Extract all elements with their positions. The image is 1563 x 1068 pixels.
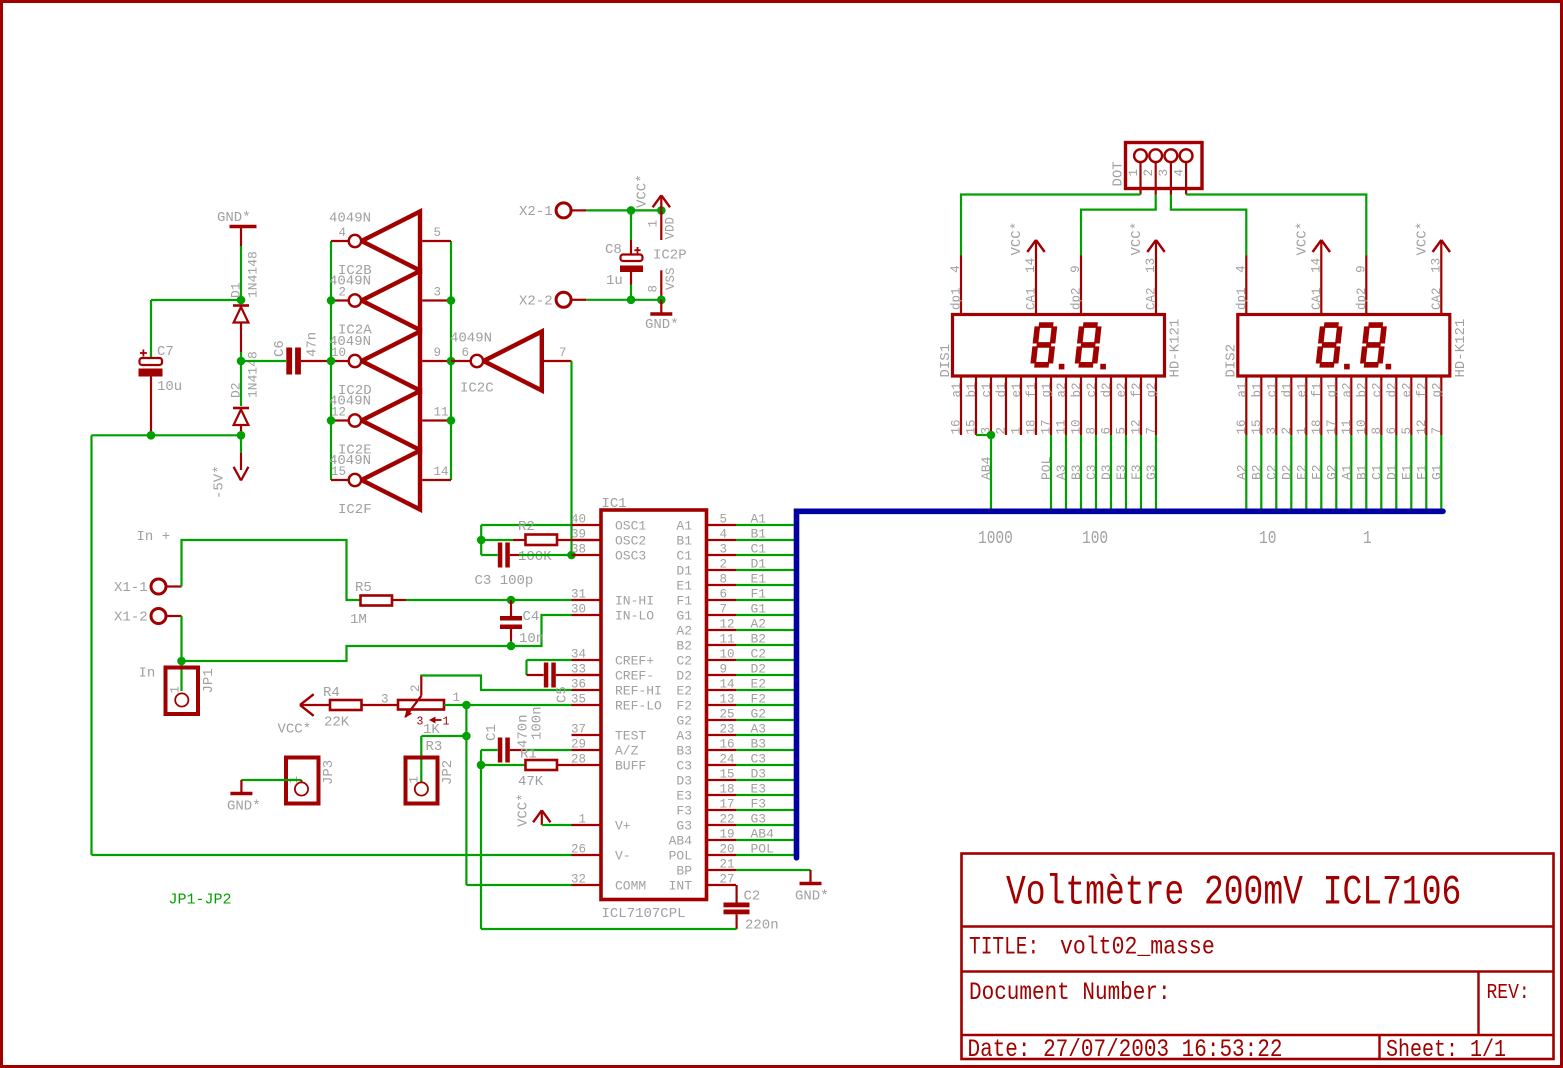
svg-text:In: In <box>139 666 156 682</box>
svg-text:13: 13 <box>1144 258 1158 273</box>
svg-text:A2: A2 <box>1234 464 1249 480</box>
net label E1 <box>751 572 767 587</box>
svg-text:E3: E3 <box>751 782 767 797</box>
svg-text:f2: f2 <box>1415 382 1429 397</box>
svg-text:5: 5 <box>1400 427 1414 435</box>
display DIS2 pin dp1 (4) <box>1234 256 1249 315</box>
svg-text:7: 7 <box>720 603 728 617</box>
svg-text:CA2: CA2 <box>1430 287 1444 310</box>
svg-text:13: 13 <box>1429 258 1443 273</box>
title block dividers <box>962 927 1554 1060</box>
svg-text:17: 17 <box>720 798 735 812</box>
net label F3 <box>1129 464 1144 480</box>
svg-text:c1: c1 <box>980 382 994 397</box>
svg-text:8: 8 <box>1370 427 1384 435</box>
display DIS1 pin g1 (17) <box>1040 376 1055 435</box>
wire <box>1140 435 1142 509</box>
inverter IC2E 4049N <box>329 391 451 459</box>
wire <box>736 629 794 631</box>
junction <box>507 642 516 651</box>
power symbol -5V* <box>212 435 249 499</box>
svg-text:C2: C2 <box>1264 464 1279 480</box>
svg-text:1: 1 <box>647 220 661 228</box>
display DIS2 pin dp2 (9) <box>1354 256 1369 315</box>
wire <box>736 794 794 796</box>
display DIS2 pin f2 (12) <box>1415 376 1430 435</box>
svg-text:3: 3 <box>1157 169 1171 177</box>
svg-text:1: 1 <box>443 716 450 729</box>
svg-text:TEST: TEST <box>615 729 646 744</box>
svg-text:6: 6 <box>720 588 728 602</box>
svg-text:VCC*: VCC* <box>516 793 532 827</box>
wire <box>92 854 572 856</box>
ic IC1 ICL7107CPL body <box>601 496 707 922</box>
display DIS1 pin c1 (3) <box>980 376 995 435</box>
svg-text:9: 9 <box>1354 265 1368 273</box>
svg-text:D3: D3 <box>751 767 767 782</box>
svg-text:V+: V+ <box>615 819 631 834</box>
connector X1-1 <box>114 579 182 596</box>
svg-text:e2: e2 <box>1400 382 1414 397</box>
ic IC1 pin row POL <box>571 843 736 864</box>
svg-text:6: 6 <box>1385 427 1399 435</box>
diode D1 1N4148 <box>229 251 261 352</box>
display DIS2 pin e2 (5) <box>1400 376 1415 435</box>
display DIS1 pin dp2 (9) <box>1069 256 1084 315</box>
svg-text:IC2C: IC2C <box>460 381 494 397</box>
wire <box>736 824 794 826</box>
svg-text:VCC*: VCC* <box>1414 222 1430 256</box>
svg-text:G3: G3 <box>676 819 692 834</box>
svg-text:C1: C1 <box>484 724 500 741</box>
svg-text:3: 3 <box>434 286 442 300</box>
net label A1 <box>1339 464 1354 480</box>
svg-text:4: 4 <box>1172 169 1186 177</box>
svg-text:REV:: REV: <box>1487 980 1530 1005</box>
junction <box>327 296 336 305</box>
net label D2 <box>1279 464 1294 480</box>
net label E2 <box>751 677 767 692</box>
svg-text:C2: C2 <box>676 654 692 669</box>
svg-text:B3: B3 <box>1069 464 1084 480</box>
svg-text:GND*: GND* <box>795 889 829 905</box>
svg-text:F3: F3 <box>751 797 767 812</box>
wire <box>1335 435 1337 509</box>
svg-text:AB4: AB4 <box>669 834 693 849</box>
svg-text:11: 11 <box>434 406 449 420</box>
net label E2 <box>1294 464 1309 480</box>
svg-text:C1: C1 <box>676 549 692 564</box>
junction <box>177 657 186 666</box>
svg-text:OSC1: OSC1 <box>615 519 646 534</box>
wire <box>465 736 467 885</box>
power symbol VCC* (DIS2 CA1) <box>1294 222 1330 315</box>
net label F3 <box>751 797 767 812</box>
svg-text:8: 8 <box>720 573 728 587</box>
svg-text:A1: A1 <box>1339 464 1354 480</box>
svg-text:23: 23 <box>720 723 735 737</box>
inverter IC2C 4049N <box>450 331 572 397</box>
svg-text:1: 1 <box>1363 528 1372 549</box>
wire <box>736 659 794 661</box>
svg-text:9: 9 <box>1069 265 1083 273</box>
net label G2 <box>1324 464 1339 480</box>
wire <box>736 539 794 541</box>
net label F2 <box>751 692 767 707</box>
junction <box>567 551 576 560</box>
wire (IC2 outputs rail) <box>450 241 452 480</box>
wire <box>240 361 242 406</box>
display DIS2 pin d2 (6) <box>1385 376 1400 435</box>
wire (b1 to AB4) <box>976 434 991 436</box>
svg-text:ICL7107CPL: ICL7107CPL <box>602 906 686 922</box>
wire <box>466 884 571 886</box>
svg-text:6: 6 <box>1100 427 1114 435</box>
wire <box>444 704 466 706</box>
svg-text:F2: F2 <box>751 692 767 707</box>
svg-text:14: 14 <box>720 678 735 692</box>
svg-text:A1: A1 <box>676 519 692 534</box>
svg-text:47K: 47K <box>518 774 544 790</box>
svg-text:10: 10 <box>1070 419 1084 434</box>
net label G1 <box>751 602 767 617</box>
capacitor C5 100n <box>527 660 602 740</box>
svg-text:10: 10 <box>720 648 735 662</box>
svg-text:1: 1 <box>1010 427 1024 435</box>
diode D2 1N4148 <box>229 351 261 431</box>
svg-text:2: 2 <box>409 684 423 692</box>
display DIS2 pin c2 (8) <box>1370 376 1385 435</box>
svg-text:4049N: 4049N <box>329 211 371 227</box>
svg-text:POL: POL <box>751 842 774 857</box>
wire <box>1050 435 1052 509</box>
display DIS1 pin d2 (6) <box>1100 376 1115 435</box>
power symbol VCC* (DIS1 CA2) <box>1129 222 1165 315</box>
svg-text:C3: C3 <box>676 759 692 774</box>
svg-text:IC2F: IC2F <box>338 502 372 518</box>
svg-text:D1: D1 <box>1384 464 1399 480</box>
svg-text:c2: c2 <box>1370 382 1384 397</box>
display DIS1 pin c2 (8) <box>1085 376 1100 435</box>
svg-text:A3: A3 <box>751 722 767 737</box>
svg-text:C3 100p: C3 100p <box>475 573 534 589</box>
svg-text:B2: B2 <box>676 639 692 654</box>
svg-text:OSC3: OSC3 <box>615 549 646 564</box>
svg-text:JP1: JP1 <box>201 668 217 693</box>
svg-text:100n: 100n <box>530 706 546 740</box>
svg-text:A2: A2 <box>676 624 692 639</box>
svg-text:F1: F1 <box>751 587 767 602</box>
title field REV: <box>1487 980 1530 1005</box>
power symbol VCC* (DIS1 CA1) <box>1009 222 1045 315</box>
svg-text:5: 5 <box>1115 427 1129 435</box>
svg-text:R4: R4 <box>323 685 340 701</box>
junction <box>327 357 336 366</box>
svg-text:G1: G1 <box>1429 464 1444 480</box>
net label C1 <box>1369 464 1384 480</box>
svg-text:100: 100 <box>1082 528 1108 549</box>
svg-text:BP: BP <box>676 864 692 879</box>
svg-text:5: 5 <box>720 513 728 527</box>
svg-text:E2: E2 <box>676 684 692 699</box>
svg-text:4: 4 <box>338 226 346 240</box>
svg-text:6: 6 <box>462 346 470 360</box>
svg-text:JP2: JP2 <box>440 760 456 785</box>
ic IC1 pin row A1 <box>571 513 736 534</box>
ic IC1 pin row G3 <box>572 813 737 834</box>
svg-text:C2: C2 <box>751 647 767 662</box>
ic IC1 pin row C1 <box>571 543 736 564</box>
svg-text:dp1: dp1 <box>1235 287 1249 310</box>
junction <box>987 431 996 440</box>
jumper JP3 <box>286 758 337 804</box>
wire <box>736 764 794 766</box>
label In + <box>137 529 171 545</box>
svg-text:36: 36 <box>571 678 586 692</box>
wire <box>736 644 794 646</box>
svg-text:HD-K121: HD-K121 <box>1168 319 1184 378</box>
svg-text:INT: INT <box>669 879 693 894</box>
net label A2 <box>1234 464 1249 480</box>
svg-text:37: 37 <box>571 723 586 737</box>
net label B3 <box>751 737 767 752</box>
svg-text:8: 8 <box>647 285 661 293</box>
svg-text:35: 35 <box>571 693 586 707</box>
svg-text:DIS1: DIS1 <box>938 344 954 378</box>
wire <box>519 554 572 556</box>
svg-text:39: 39 <box>571 528 586 542</box>
svg-text:5: 5 <box>434 226 442 240</box>
resistor R2 100K <box>481 519 601 565</box>
wire <box>481 928 737 930</box>
net label D1 <box>1384 464 1399 480</box>
wire <box>570 361 572 555</box>
svg-text:1N4148: 1N4148 <box>246 251 261 298</box>
wire <box>1155 435 1157 509</box>
svg-text:14: 14 <box>1309 258 1323 273</box>
svg-text:A3: A3 <box>676 729 692 744</box>
junction <box>627 296 636 305</box>
display DIS2 pin g2 (7) <box>1430 376 1445 435</box>
net label C2 <box>1264 464 1279 480</box>
svg-text:2: 2 <box>995 427 1009 435</box>
wire <box>1095 435 1097 509</box>
svg-text:G3: G3 <box>751 812 767 827</box>
ic IC1 pin row D2 <box>571 663 736 684</box>
svg-text:V-: V- <box>615 849 631 864</box>
label In <box>139 666 156 682</box>
svg-text:f1: f1 <box>1310 382 1324 397</box>
svg-text:Document Number:: Document Number: <box>969 978 1171 1006</box>
svg-text:30: 30 <box>571 603 586 617</box>
connector X2-2 <box>519 292 586 309</box>
svg-text:20: 20 <box>720 843 735 857</box>
wire <box>736 749 794 751</box>
svg-text:c2: c2 <box>1085 382 1099 397</box>
net label E1 <box>1399 464 1414 480</box>
wire <box>736 674 794 676</box>
display DIS1 pin f1 (18) <box>1025 376 1040 435</box>
svg-text:12: 12 <box>1415 419 1429 434</box>
svg-text:Voltmètre 200mV ICL7106: Voltmètre 200mV ICL7106 <box>1006 870 1461 917</box>
svg-text:E1: E1 <box>751 572 767 587</box>
net label C1 <box>751 542 767 557</box>
svg-text:g1: g1 <box>1040 382 1054 397</box>
svg-text:VCC*: VCC* <box>278 722 312 738</box>
wire <box>182 540 361 600</box>
svg-text:POL: POL <box>669 849 692 864</box>
svg-text:B2: B2 <box>1249 464 1264 480</box>
jumper JP1 <box>166 661 218 714</box>
svg-text:12: 12 <box>720 618 735 632</box>
wire <box>240 246 242 300</box>
junction <box>477 536 486 545</box>
net label D3 <box>751 767 767 782</box>
svg-text:F2: F2 <box>676 699 692 714</box>
svg-text:9: 9 <box>720 663 728 677</box>
svg-text:GND*: GND* <box>645 317 679 333</box>
wire <box>406 599 572 601</box>
capacitor C1 470n <box>481 714 532 762</box>
svg-text:IN-LO: IN-LO <box>615 609 654 624</box>
svg-text:Sheet: 1/1: Sheet: 1/1 <box>1386 1036 1506 1063</box>
svg-text:17: 17 <box>1325 419 1339 434</box>
display DIS2 pin a2 (11) <box>1340 376 1355 435</box>
svg-text:C1: C1 <box>751 542 767 557</box>
net label POL <box>1039 457 1054 480</box>
wire <box>736 689 794 691</box>
svg-text:11: 11 <box>1055 419 1069 434</box>
svg-text:B1: B1 <box>751 527 767 542</box>
junction <box>477 761 486 770</box>
display DIS1 pin e2 (5) <box>1115 376 1130 435</box>
junction <box>507 596 516 605</box>
net label AB4 <box>751 827 775 842</box>
svg-text:G2: G2 <box>751 707 767 722</box>
wire <box>421 676 571 691</box>
svg-text:D3: D3 <box>1099 464 1114 480</box>
net label B2 <box>751 632 767 647</box>
svg-text:29: 29 <box>571 738 586 752</box>
wire <box>525 749 572 751</box>
svg-text:4: 4 <box>720 528 728 542</box>
svg-text:15: 15 <box>1250 419 1264 434</box>
net label G3 <box>751 812 767 827</box>
svg-text:D3: D3 <box>676 774 692 789</box>
svg-text:4: 4 <box>1234 265 1248 273</box>
junction <box>657 296 666 305</box>
svg-text:C7: C7 <box>157 344 174 360</box>
display DIS1 pin a1 (16) <box>950 376 965 435</box>
svg-text:VCC*: VCC* <box>1009 222 1025 256</box>
capacitor C2 220n <box>724 885 779 934</box>
power symbol GND* (top) <box>217 210 257 246</box>
wire <box>1380 435 1382 509</box>
display DIS1 pin a2 (11) <box>1055 376 1070 435</box>
junction <box>237 357 246 366</box>
wire <box>1320 435 1322 509</box>
svg-text:REF-LO: REF-LO <box>615 699 662 714</box>
svg-text:G1: G1 <box>751 602 767 617</box>
wire <box>736 569 794 571</box>
ic IC1 pin row G2 <box>676 708 736 729</box>
display DIS2 pin b2 (10) <box>1355 376 1370 435</box>
display DIS2 pin b1 (15) <box>1250 376 1265 435</box>
display DIS1 HD-K121 body <box>938 315 1184 378</box>
svg-text:31: 31 <box>571 588 586 602</box>
svg-text:C3: C3 <box>1084 464 1099 480</box>
ic IC1 pin row D3 <box>676 768 736 789</box>
svg-text:TITLE:: TITLE: <box>969 932 1039 961</box>
net label B1 <box>751 527 767 542</box>
net label B2 <box>1249 464 1264 480</box>
junction <box>237 431 246 440</box>
display DIS1 pin g2 (7) <box>1145 376 1160 435</box>
svg-text:e2: e2 <box>1115 382 1129 397</box>
connector DOT <box>1111 143 1203 195</box>
net label C2 <box>751 647 767 662</box>
ic IC1 pin row B1 <box>571 528 736 549</box>
wire <box>1350 435 1352 509</box>
svg-text:C2: C2 <box>744 889 761 905</box>
svg-text:F2: F2 <box>1309 464 1324 480</box>
svg-text:f1: f1 <box>1025 382 1039 397</box>
svg-text:E3: E3 <box>676 789 692 804</box>
svg-text:15: 15 <box>331 465 346 479</box>
svg-text:e1: e1 <box>1010 382 1024 397</box>
junction <box>462 701 471 710</box>
svg-text:D1: D1 <box>676 564 692 579</box>
svg-text:3: 3 <box>1265 427 1279 435</box>
svg-text:4: 4 <box>949 265 963 273</box>
svg-text:X2-2: X2-2 <box>519 294 553 310</box>
svg-text:10: 10 <box>1259 528 1276 549</box>
svg-text:CA1: CA1 <box>1025 287 1039 310</box>
svg-text:11: 11 <box>1340 419 1354 434</box>
svg-text:27: 27 <box>720 873 735 887</box>
svg-text:3: 3 <box>720 543 728 557</box>
power symbol VCC* (DIS2 CA2) <box>1414 222 1450 315</box>
svg-text:C4: C4 <box>523 609 540 625</box>
svg-text:DOT: DOT <box>1111 161 1127 186</box>
svg-text:d2: d2 <box>1385 382 1399 397</box>
display DIS1 pin e1 (1) <box>1010 376 1025 435</box>
svg-text:a2: a2 <box>1055 382 1069 397</box>
bus label 1 <box>1363 528 1372 549</box>
ic IC1 pin row D1 <box>676 558 736 579</box>
svg-text:13: 13 <box>720 693 735 707</box>
svg-text:14: 14 <box>434 465 449 479</box>
svg-text:COMM: COMM <box>615 879 646 894</box>
wire <box>1065 435 1067 509</box>
wire (BP to GND) <box>736 869 811 871</box>
display DIS1 pin dp1 (4) <box>949 256 964 315</box>
junction <box>462 732 471 741</box>
svg-text:b1: b1 <box>965 382 979 397</box>
bus label 10 <box>1259 528 1276 549</box>
junction <box>147 431 156 440</box>
wire <box>736 599 794 601</box>
svg-text:28: 28 <box>571 753 586 767</box>
svg-text:F3: F3 <box>676 804 692 819</box>
svg-text:A/Z: A/Z <box>615 744 639 759</box>
svg-text:47n: 47n <box>305 332 321 357</box>
junction <box>657 206 666 215</box>
trimmer R3 1K <box>381 676 460 755</box>
svg-text:X1-1: X1-1 <box>114 580 148 596</box>
inverter IC2A 4049N <box>329 271 451 339</box>
label JP1-JP2 <box>169 892 232 909</box>
